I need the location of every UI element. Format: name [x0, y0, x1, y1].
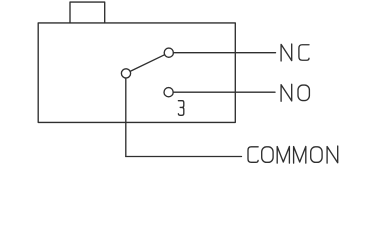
switch lever: [130, 55, 165, 72]
wire COMMON horizontal: [126, 156, 242, 158]
wire NO: [173, 91, 275, 93]
label NO: [281, 84, 309, 101]
label NC: [281, 44, 309, 61]
contact NO terminal: [164, 88, 173, 97]
label COMMON: [248, 146, 338, 163]
contact NC terminal: [164, 48, 173, 57]
switch body S1: [38, 23, 235, 123]
label pin 3: [178, 101, 183, 116]
wire COMMON vertical: [125, 78, 127, 157]
actuator button: [70, 2, 105, 23]
contact common pole: [121, 69, 130, 78]
wire NC: [173, 52, 275, 54]
